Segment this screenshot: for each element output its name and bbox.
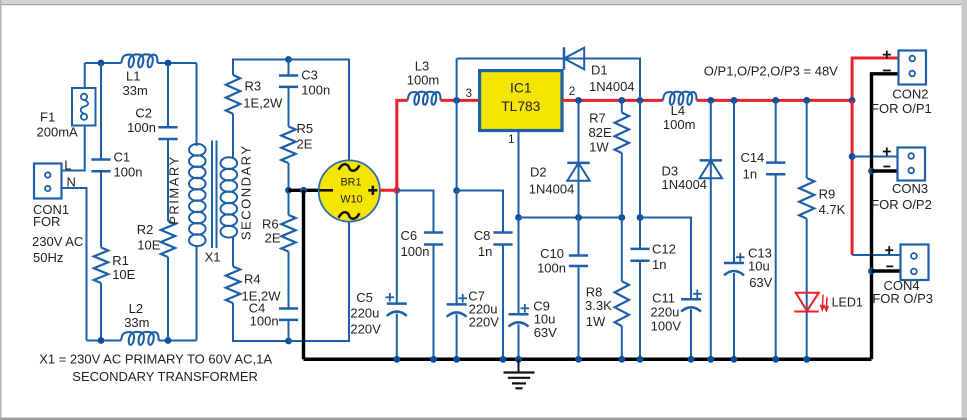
wire C5 to ground bus [396,314,398,360]
svg-text:IC1: IC1 [510,80,531,95]
capacitor C7 polarity + [458,297,467,299]
node: C6 to ground bus [430,356,437,363]
wire R8 upper lead [621,218,623,282]
label C9 10u 63V [533,299,557,340]
svg-text:1W: 1W [589,140,609,155]
wire D3 lead [710,100,712,359]
svg-text:LED1: LED1 [832,296,863,310]
capacitor C1 [91,158,110,161]
fuse F1 [72,88,96,126]
svg-text:100n: 100n [301,82,330,97]
svg-text:C2: C2 [135,106,152,121]
svg-text:CON3: CON3 [892,181,928,196]
wire ground bus [304,358,872,362]
wire C3 to R5 [288,87,290,127]
wire R4 to bottom corner [233,303,289,341]
wire black branch CON3 [872,169,898,172]
node: C12 to ground bus [637,356,644,363]
regulator IC1 TL783 [480,71,562,131]
diode D1 1N4004 [563,47,566,69]
CON3 + label [883,151,891,153]
svg-text:100V: 100V [651,319,682,334]
wire fuse to top AC rail [84,63,86,88]
wire R6 to C4 [288,252,290,309]
wire stub to C11 [640,218,691,300]
svg-text:R4: R4 [244,271,261,286]
label C1 100n [114,150,143,180]
wire C1 to R1 [100,171,102,247]
svg-text:100n: 100n [127,120,156,135]
wire C3 upper lead [288,60,290,76]
label C14 1n [740,150,764,181]
svg-text:33m: 33m [123,83,148,98]
svg-text:D2: D2 [530,164,547,179]
label C13 10u 63V [748,246,773,291]
wire C4 lower lead [288,320,290,341]
capacitor C10 [569,254,588,257]
wire vertical input node [456,59,458,191]
wire C12 to ground bus [639,261,641,360]
wire secondary top rail to BR1 [289,60,350,162]
node: C10 to ground bus [575,356,582,363]
wire R7 lower lead [621,153,623,218]
diode D2 1N4004 [567,162,589,165]
node: IC input node [453,97,460,104]
bridge rectifier BR1 W10 [319,160,380,221]
wire red L3 to IC1 pin3 [441,99,480,102]
resistor R2 [161,221,175,257]
svg-text:C1: C1 [114,150,131,165]
transformer X1 core [211,141,213,249]
diode D3 1N4004 [700,159,722,162]
wire C8 jog [457,191,503,233]
label C7 220u 220V [468,289,499,330]
svg-text:R5: R5 [297,121,314,136]
svg-text:CON2: CON2 [892,86,928,101]
node: C13 on rail [731,97,738,104]
label R8 3.3K 1W [585,285,612,329]
svg-text:33m: 33m [124,315,149,330]
node: D2 on rail [575,97,582,104]
wire secondary bottom lead [232,237,234,266]
label CON1 FOR 230V AC 50Hz [32,202,83,265]
svg-text:L4: L4 [671,103,685,118]
svg-text:L2: L2 [129,301,143,316]
svg-text:100n: 100n [114,165,143,180]
wire C7 to ground bus [456,314,458,359]
svg-text:100m: 100m [407,73,440,88]
label D3 1N4004 [662,163,708,192]
svg-text:C12: C12 [652,242,676,257]
CON4 + label [885,249,893,251]
node: R2 to bottom rail [165,337,172,344]
wire IC1 pin1 lead [518,131,520,218]
capacitor C8 [493,231,512,234]
node: CON3 - branch [868,168,875,175]
svg-text:FOR O/P1: FOR O/P1 [871,101,932,116]
svg-text:63V: 63V [534,325,557,340]
wire C6 jog from +node [397,191,434,233]
capacitor C13 polarity + [736,256,745,258]
inductor L2 [121,332,159,345]
svg-text:100n: 100n [401,244,430,259]
wire C11 to ground bus [690,309,692,359]
wire R3 to rail corner [233,60,289,76]
svg-text:2E: 2E [297,137,313,152]
node: C12/C11 branch [637,214,644,221]
label CON3 FOR O/P2 [871,181,932,212]
svg-text:F1: F1 [40,109,55,124]
resistor R5 [281,127,295,164]
svg-text:C11: C11 [652,290,675,305]
inductor L3 [408,92,441,105]
capacitor C7 lead [456,191,458,305]
capacitor C4 [279,307,298,310]
svg-text:10u: 10u [748,259,770,274]
wire bottom AC rail right segment [159,340,197,342]
node: C13 to ground bus [731,356,738,363]
label C4 100n [249,300,279,328]
label CON2 FOR O/P1 [871,86,932,116]
wire R1 to bottom rail [100,283,102,341]
svg-text:2E: 2E [265,231,281,246]
label L3 100m [407,59,440,88]
transformer X1 primary winding [189,144,206,246]
label D2 1N4004 [529,164,575,196]
node: C3 to secondary top rail [285,56,292,63]
node: BR1 + output [393,187,400,194]
svg-text:R7: R7 [589,111,606,126]
wire C9 to ground bus [518,324,520,359]
svg-text:FOR O/P3: FOR O/P3 [872,291,933,306]
svg-text:R2: R2 [137,222,154,237]
svg-text:1N4004: 1N4004 [662,177,708,192]
CON2 - label [883,70,891,72]
capacitor C11 polarity + [693,293,702,295]
connector CON1 [34,164,62,199]
svg-text:1: 1 [508,134,514,146]
svg-text:FOR: FOR [33,214,60,229]
svg-text:PRIMARY: PRIMARY [167,155,182,225]
capacitor C14 [766,161,785,164]
wire C1 branch upper [100,63,102,160]
svg-text:X1: X1 [205,249,221,264]
CON3 - label [883,166,890,168]
connector CON4 [901,245,929,281]
label CON4 FOR O/P3 [872,278,933,306]
label L2 33m [124,301,149,330]
resistor R9 [799,178,814,219]
CON4 - label [886,265,893,267]
resistor R3 [226,75,240,114]
capacitor C12 [630,248,649,251]
svg-text:50Hz: 50Hz [33,250,63,265]
wire red output rail after L4 [697,99,853,102]
svg-text:X1 = 230V AC PRIMARY TO 60V AC: X1 = 230V AC PRIMARY TO 60V AC,1A [39,352,272,367]
svg-text:L1: L1 [126,69,140,84]
label D1 1N4004 [589,63,635,95]
node: C11 to ground bus [688,356,695,363]
svg-text:1n: 1n [743,166,757,181]
label R6 2E [262,217,281,246]
wire output drop to C12 node [639,100,641,217]
svg-text:1W: 1W [586,314,606,329]
wire R9 to LED1 [806,219,808,360]
wire primary bottom lead [196,245,198,341]
label L1 33m [123,69,148,99]
node: CON3 + branch [849,153,856,160]
wire R9 upper lead [806,100,808,178]
svg-text:1E,2W: 1E,2W [243,96,283,111]
resistor R1 [94,248,108,284]
node: black return junction [300,187,307,194]
capacitor C13 (electrolytic) [724,262,744,265]
node: D3 on rail [707,97,714,104]
wire bottom AC rail left segment [87,340,122,342]
wire D1 top branch [457,59,640,101]
capacitor C3 [279,74,298,77]
node: C5 to ground bus [393,356,400,363]
node: R7/R8 junction [618,214,625,221]
capacitor C2 [158,126,177,129]
node: R8 to ground bus [618,356,625,363]
node: C4 to secondary bottom rail [285,338,292,345]
wire red down to CON3/CON4 [851,100,854,255]
svg-text:3: 3 [466,88,472,100]
wire C2 to R2 [167,139,169,221]
capacitor C13 lead [733,100,735,263]
node: C7 C8 branch [453,187,460,194]
resistor R6 [281,215,295,252]
svg-text:BR1: BR1 [340,177,361,189]
capacitor C14 lead [775,100,777,162]
wire BR1 AC- black wire [289,189,320,192]
label C8 1n [474,228,493,259]
node: R1 to bottom rail [98,337,105,344]
node: CON4 - branch [868,268,875,275]
label C11 220u 100V [650,290,681,333]
wire L: CON1 to fuse F1 [62,126,85,171]
svg-text:1N4004: 1N4004 [529,181,575,196]
svg-text:200mA: 200mA [37,124,79,139]
wire R7 upper lead [621,100,623,112]
node: C1 to top rail [98,60,105,67]
resistor R7 [615,113,629,153]
node: D3 to ground bus [707,356,714,363]
label F1 200mA [37,109,79,139]
wire red output rail pin2 [562,99,663,102]
LED LED1 [794,293,828,312]
svg-text:O/P1,O/P2,O/P3 = 48V: O/P1,O/P2,O/P3 = 48V [704,64,838,79]
wire BR1 DC+ red [380,189,397,192]
svg-text:3.3K: 3.3K [585,298,612,313]
svg-text:C10: C10 [540,246,564,261]
node: D2 to ADJ bus [575,214,582,221]
svg-text:100n: 100n [250,314,279,329]
wire primary top lead [196,63,198,146]
svg-text:D1: D1 [591,63,608,78]
connector CON3 [898,148,926,181]
svg-text:C8: C8 [474,228,491,243]
label R4 1E,2W [242,271,282,303]
svg-text:C3: C3 [301,67,318,82]
capacitor C9 lead [518,218,520,315]
label C5 220u 220V [350,290,381,337]
svg-text:R3: R3 [245,79,262,94]
wire secondary top rail [232,114,234,158]
svg-text:FOR O/P2: FOR O/P2 [871,197,932,212]
wire C12 lead [639,218,641,249]
svg-text:L3: L3 [415,59,429,74]
ground symbol [504,359,535,388]
svg-text:220V: 220V [469,315,500,330]
label R1 10E [112,253,135,282]
wire R5 to node [288,163,290,190]
capacitor C5 polarity + [386,296,395,298]
node: R5-R6 junction to BR1 AC- [285,187,292,194]
svg-text:C6: C6 [401,228,418,243]
node: pin1 to ADJ bus [515,214,522,221]
node: C14 on rail [772,97,779,104]
wire top AC rail right segment [158,62,197,64]
capacitor C9 polarity + [521,307,530,309]
svg-text:100m: 100m [663,117,696,132]
svg-text:W10: W10 [340,194,362,206]
node: output rail corner [849,97,856,104]
node: LED1 to ground bus [803,356,810,363]
node: C7 to ground bus [453,356,460,363]
inductor L1 [121,54,157,67]
wire C13 to ground bus [733,273,735,359]
label R7 82E 1W [589,111,612,155]
svg-text:SECONDARY TRANSFORMER: SECONDARY TRANSFORMER [72,369,258,384]
wire black CON2 return [872,74,899,360]
capacitor C6 [424,231,443,234]
wire C10 to ground bus [578,266,580,359]
wire N: CON1 to bottom rail [62,188,87,341]
node: C14 to ground bus [772,356,779,363]
svg-text:220u: 220u [350,306,379,321]
wire C8 to ground bus [502,245,504,360]
svg-text:4.7K: 4.7K [819,202,846,217]
wire ADJ bus [519,217,622,219]
inductor L4 [663,92,697,105]
capacitor C10 lead [578,218,580,256]
wire branch CON4 + [852,254,900,256]
connector CON2 [899,51,927,85]
svg-text:220V: 220V [350,322,381,337]
wire C2 branch upper [167,63,169,127]
wire red up to L3 [397,100,408,190]
wire C14 to ground bus [775,174,777,359]
capacitor C11 (electrolytic) [681,298,701,301]
svg-text:R9: R9 [819,186,836,201]
CON2 + label [883,54,891,56]
svg-text:2: 2 [569,86,575,98]
node: D1/C12-branch on rail [637,97,644,104]
wire black branch CON4 [872,269,901,272]
label C10 100n [537,246,566,276]
capacitor C5 lead [396,190,398,303]
label C6 100n [401,228,430,259]
svg-text:10E: 10E [137,237,160,252]
wire secondary bottom rail to BR1 [289,222,350,342]
label C12 1n [652,242,676,273]
svg-text:63V: 63V [749,275,772,290]
label R2 10E [137,222,161,253]
resistor R8 [615,281,629,326]
capacitor C9 (electrolytic) [509,313,529,316]
node: C8 to ground bus [500,356,507,363]
svg-text:C14: C14 [740,150,764,165]
wire D2 lead [578,100,580,217]
node: R7 on rail [618,97,625,104]
capacitor C5 (electrolytic) [387,302,407,305]
wire C6 to ground bus [433,245,435,360]
svg-text:SECONDARY: SECONDARY [238,144,253,240]
label C3 100n [301,67,330,97]
svg-text:1n: 1n [652,257,666,272]
wire R2 to bottom rail [167,257,169,341]
wire R8 to ground bus [621,326,623,359]
svg-text:220u: 220u [650,304,679,319]
node: C2 to top rail [165,60,172,67]
svg-text:100n: 100n [537,261,566,276]
label L4 100m [663,103,696,132]
svg-text:C5: C5 [356,290,373,305]
resistor R4 [226,267,240,304]
svg-text:R6: R6 [262,217,279,232]
svg-text:1n: 1n [478,244,492,259]
label R5 2E [297,121,314,152]
svg-text:TL783: TL783 [501,99,540,114]
capacitor C7 (electrolytic) [447,303,467,306]
svg-text:82E: 82E [589,125,612,140]
transformer X1 secondary winding [221,157,238,237]
wire branch CON3 + [852,156,897,158]
wire red to CON2 [852,58,898,100]
node: C9 to ground bus [515,356,522,363]
wire black vertical to ground bus [302,190,305,359]
label R9 4.7K [819,186,846,217]
label R3 1E,2W [243,79,283,111]
svg-text:1N4004: 1N4004 [589,79,635,94]
wire top AC rail left segment [85,62,122,64]
wire R6 upper lead [288,190,290,215]
node: R9 on rail [803,97,810,104]
label C2 100n [127,106,156,135]
svg-text:230V AC: 230V AC [32,234,83,249]
svg-text:10E: 10E [112,267,135,282]
